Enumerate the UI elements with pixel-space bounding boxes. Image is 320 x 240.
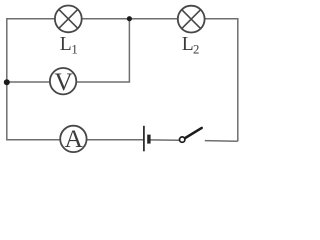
lamp L2 bbox=[178, 6, 205, 33]
switch S lever (open) bbox=[185, 128, 202, 138]
wire ammeter to battery bbox=[87, 139, 144, 141]
switch S pivot bbox=[180, 137, 185, 142]
wire voltmeter right: voltmeter up to node B bbox=[76, 19, 129, 82]
node A junction dot (left rail at voltmeter branch) bbox=[4, 79, 10, 85]
wire top-middle: L1 to L2 through node B bbox=[82, 18, 178, 20]
wire left rail lower: junction to bottom-left corner bbox=[7, 82, 60, 140]
node B junction dot (top wire between L1 and L2) bbox=[127, 16, 132, 21]
wire switch to bottom-right corner bbox=[205, 140, 238, 143]
wire top-right: L2 to top-right corner and down right rail bbox=[205, 19, 238, 142]
wire voltmeter left: junction to voltmeter bbox=[7, 81, 50, 83]
svg-text:V: V bbox=[54, 67, 73, 96]
battery cell: short thick negative plate bbox=[147, 135, 150, 144]
voltmeter V bbox=[50, 67, 76, 96]
wire top-left: top-left corner to lamp L1 bbox=[7, 19, 55, 82]
svg-text:1: 1 bbox=[71, 43, 77, 57]
svg-text:A: A bbox=[64, 124, 83, 153]
svg-text:L: L bbox=[60, 34, 72, 55]
battery cell: long positive plate bbox=[143, 126, 145, 152]
ammeter A bbox=[60, 124, 86, 153]
svg-text:2: 2 bbox=[193, 43, 199, 57]
svg-text:L: L bbox=[182, 34, 194, 55]
lamp L1 bbox=[55, 6, 82, 33]
wire battery to switch bbox=[150, 139, 179, 141]
